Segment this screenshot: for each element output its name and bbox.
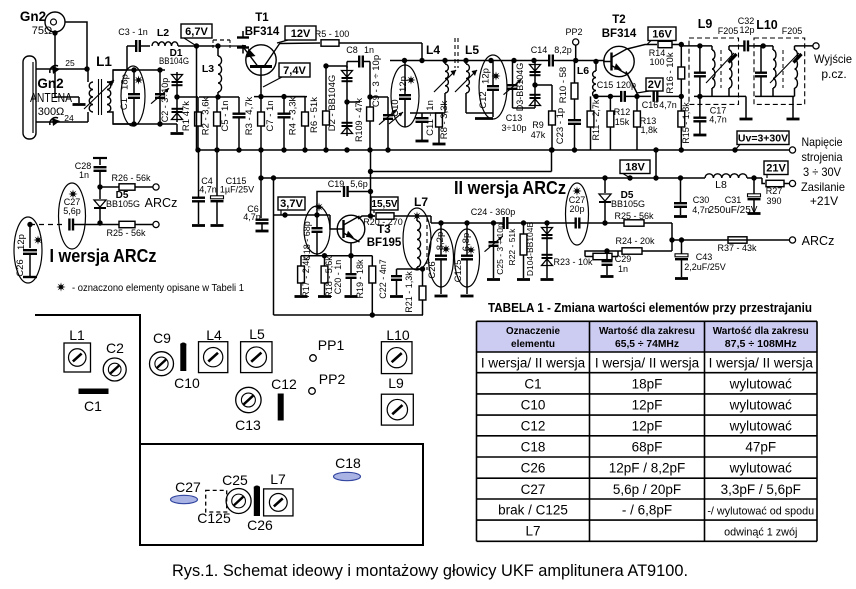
svg-text:18V: 18V bbox=[625, 161, 645, 173]
wire L1 secondary bbox=[107, 70, 127, 82]
svg-text:wylutować: wylutować bbox=[729, 419, 793, 434]
svg-text:C43: C43 bbox=[696, 252, 713, 262]
svg-text:100: 100 bbox=[649, 57, 664, 67]
svg-text:C3 - 1n: C3 - 1n bbox=[118, 27, 148, 37]
wire pin25 to L1 bbox=[36, 68, 88, 70]
wire T3 collector bbox=[358, 216, 375, 219]
inductor L4 winding bbox=[445, 64, 448, 93]
svg-text:C25: C25 bbox=[222, 472, 248, 488]
svg-text:C13: C13 bbox=[506, 113, 523, 123]
callout 12V bbox=[285, 26, 316, 40]
IF can L10 dashed box bbox=[754, 38, 805, 104]
wire T2 emitter bbox=[626, 72, 637, 97]
svg-text:-/ wylutować od spodu: -/ wylutować od spodu bbox=[707, 506, 814, 518]
svg-text:L7: L7 bbox=[414, 195, 428, 209]
svg-text:2V: 2V bbox=[648, 79, 662, 91]
capacitor C10 mount bbox=[180, 344, 186, 372]
callout 7.4V bbox=[279, 63, 310, 77]
svg-text:87,5 ÷ 108MHz: 87,5 ÷ 108MHz bbox=[725, 338, 797, 350]
svg-text:C24 - 360p: C24 - 360p bbox=[471, 207, 516, 217]
svg-text:R5 - 100: R5 - 100 bbox=[315, 29, 350, 39]
svg-text:18pF: 18pF bbox=[632, 376, 663, 391]
svg-text:2,2uF/25V: 2,2uF/25V bbox=[684, 262, 726, 272]
svg-text:C26: C26 bbox=[247, 517, 273, 533]
svg-text:120p: 120p bbox=[616, 80, 636, 90]
node ARCz II line bbox=[97, 220, 102, 225]
svg-text:II wersja ARCz: II wersja ARCz bbox=[454, 178, 566, 198]
svg-text:odwinąć 1 zwój: odwinąć 1 zwój bbox=[724, 527, 797, 539]
trimmer C13 mount bbox=[236, 387, 261, 412]
svg-text:T1: T1 bbox=[255, 12, 269, 24]
svg-text:12p: 12p bbox=[16, 234, 27, 250]
svg-text:R27: R27 bbox=[766, 186, 783, 196]
svg-text:68pF: 68pF bbox=[632, 439, 663, 454]
svg-text:C26: C26 bbox=[521, 461, 546, 476]
capacitor C12 12p (marked) bbox=[479, 55, 507, 119]
svg-text:BF314: BF314 bbox=[602, 28, 637, 40]
callout 15.5V bbox=[371, 197, 398, 210]
svg-text:C27: C27 bbox=[521, 482, 546, 497]
svg-text:wylutować: wylutować bbox=[729, 376, 793, 391]
ARCz output line bbox=[672, 239, 789, 241]
emitter bus T3 bbox=[301, 255, 372, 257]
svg-text:R26 - 56k: R26 - 56k bbox=[111, 173, 151, 183]
callout Uv bbox=[737, 131, 789, 145]
terminal ARCz bbox=[789, 237, 795, 243]
svg-text:wylutować: wylutować bbox=[729, 398, 793, 413]
svg-text:BF195: BF195 bbox=[367, 237, 402, 249]
svg-text:5,6p / 20pF: 5,6p / 20pF bbox=[613, 482, 681, 497]
wire L8 to 21V bbox=[747, 177, 762, 179]
capacitor C1 18p (marked) bbox=[121, 66, 145, 126]
svg-text:C1: C1 bbox=[524, 376, 541, 391]
svg-text:C2: C2 bbox=[106, 340, 124, 356]
svg-text:C15: C15 bbox=[597, 80, 614, 90]
svg-text:I wersja/ II wersja: I wersja/ II wersja bbox=[481, 356, 586, 371]
svg-text:C27: C27 bbox=[175, 479, 201, 495]
svg-text:C18: C18 bbox=[521, 439, 546, 454]
L9 primary winding bbox=[711, 46, 713, 50]
svg-text:brak / C125: brak / C125 bbox=[498, 503, 568, 518]
capacitor C1 mount bbox=[79, 389, 109, 395]
node L3 bottom bbox=[199, 96, 239, 98]
svg-text:R24 - 20k: R24 - 20k bbox=[615, 236, 655, 246]
svg-text:12pF: 12pF bbox=[632, 398, 663, 413]
connector Gn2 ANTENA 300R body bbox=[23, 56, 36, 139]
svg-text:15,5V: 15,5V bbox=[371, 199, 397, 210]
svg-text:BB105G: BB105G bbox=[611, 199, 645, 209]
wire D1 to R1 bbox=[177, 96, 198, 98]
svg-text:C29: C29 bbox=[615, 254, 632, 264]
wire T1 collector bbox=[280, 42, 320, 45]
svg-text:300Ω: 300Ω bbox=[38, 106, 65, 118]
svg-text:L3: L3 bbox=[202, 63, 214, 75]
wire AFC line y171.5 bbox=[370, 150, 372, 216]
svg-text:47k: 47k bbox=[531, 130, 546, 140]
svg-text:elementu: elementu bbox=[511, 338, 555, 350]
svg-text:C12: C12 bbox=[521, 419, 546, 434]
IF can L9 dashed box bbox=[689, 38, 739, 104]
dashed link C26 to C27 bbox=[30, 224, 65, 226]
svg-text:R23 - 10k: R23 - 10k bbox=[553, 257, 593, 267]
svg-text:5,6p: 5,6p bbox=[63, 206, 81, 216]
svg-text:65,5 ÷ 74MHz: 65,5 ÷ 74MHz bbox=[615, 338, 679, 350]
wire Gn2 stem bbox=[54, 32, 56, 45]
emitter bus T2 bbox=[596, 95, 621, 97]
wire L2 to T1 bbox=[178, 45, 214, 47]
svg-text:Wartość dla zakresu: Wartość dla zakresu bbox=[713, 325, 809, 337]
svg-text:12p: 12p bbox=[398, 76, 409, 92]
svg-text:12p: 12p bbox=[481, 68, 492, 84]
mounting area border bbox=[35, 315, 140, 444]
node secondary top bbox=[113, 69, 165, 71]
connector Gn2 75R bbox=[45, 12, 65, 32]
wire to ARCz bbox=[671, 223, 673, 251]
svg-text:C20 - 1n: C20 - 1n bbox=[333, 260, 343, 295]
terminal Wyjscie p.cz. bbox=[813, 43, 819, 49]
svg-text:C13: C13 bbox=[235, 417, 261, 433]
svg-text:R3 - 4,7k: R3 - 4,7k bbox=[244, 96, 255, 135]
svg-text:L9: L9 bbox=[388, 375, 404, 391]
svg-text:R12: R12 bbox=[614, 107, 631, 117]
svg-text:C1: C1 bbox=[119, 98, 130, 110]
svg-text:C1: C1 bbox=[84, 398, 102, 414]
svg-text:L9: L9 bbox=[698, 17, 713, 31]
svg-text:5,6p: 5,6p bbox=[350, 179, 368, 189]
capacitor C27 5.6p (marked) bbox=[59, 183, 86, 249]
svg-text:L10: L10 bbox=[756, 18, 778, 32]
svg-text:16V: 16V bbox=[652, 28, 672, 40]
svg-text:Wartość dla zakresu: Wartość dla zakresu bbox=[599, 325, 695, 337]
svg-text:15k: 15k bbox=[615, 117, 630, 127]
svg-text:L7: L7 bbox=[270, 471, 286, 487]
L10 tuning slug bbox=[770, 53, 799, 83]
svg-text:Gn2: Gn2 bbox=[20, 9, 46, 24]
svg-text:C125: C125 bbox=[453, 260, 464, 283]
shield dashes at T1 base bbox=[214, 45, 246, 47]
capacitor C125 mount bbox=[206, 490, 227, 512]
table grid bbox=[477, 320, 818, 322]
svg-text:C10: C10 bbox=[521, 398, 546, 413]
L10 secondary winding bbox=[794, 46, 796, 50]
svg-text:C16: C16 bbox=[642, 100, 659, 110]
svg-text:L7: L7 bbox=[525, 524, 540, 539]
svg-text:Gn2: Gn2 bbox=[37, 76, 63, 91]
svg-text:R17 - 2,4k: R17 - 2,4k bbox=[301, 256, 311, 298]
wire T1 left diagonal to shield wire bbox=[242, 45, 246, 48]
svg-text:25: 25 bbox=[65, 58, 75, 68]
capacitor C125 6.8p (marked) bbox=[455, 229, 480, 287]
svg-text:Wyjście: Wyjście bbox=[814, 52, 852, 66]
svg-text:L10: L10 bbox=[386, 327, 410, 343]
svg-text:C8: C8 bbox=[346, 45, 358, 55]
svg-text:R37 - 43k: R37 - 43k bbox=[717, 243, 757, 253]
capacitor C10 12p (marked) bbox=[391, 65, 419, 127]
svg-text:6,7V: 6,7V bbox=[185, 26, 208, 38]
supply bus y177 bbox=[261, 177, 705, 179]
svg-text:PP1: PP1 bbox=[318, 337, 345, 353]
svg-text:R16 - 10k: R16 - 10k bbox=[665, 52, 676, 93]
svg-text:I wersja/ II wersja: I wersja/ II wersja bbox=[595, 356, 700, 371]
capacitor C26 8.2p II (marked) bbox=[429, 229, 454, 287]
svg-text:R22 - 51k: R22 - 51k bbox=[507, 228, 517, 266]
svg-text:Rys.1. Schemat ideowy i montaż: Rys.1. Schemat ideowy i montażowy głowic… bbox=[172, 562, 688, 580]
svg-text:I wersja ARCz: I wersja ARCz bbox=[50, 246, 157, 266]
wire bottom rail left bbox=[113, 123, 177, 125]
terminal Zasilanie +21V bbox=[789, 180, 795, 186]
resistor R12 15k bbox=[609, 96, 611, 111]
wire AGC column x196 bbox=[196, 46, 198, 150]
svg-text:F205: F205 bbox=[782, 26, 803, 36]
wire II box bottom bbox=[274, 314, 424, 316]
svg-text:4,7n: 4,7n bbox=[709, 115, 727, 125]
svg-text:PP2: PP2 bbox=[319, 371, 346, 387]
svg-text:4,7n: 4,7n bbox=[659, 100, 677, 110]
svg-text:C2 - 3÷10p: C2 - 3÷10p bbox=[160, 78, 170, 122]
svg-text:18p: 18p bbox=[120, 74, 131, 90]
svg-text:BB104G: BB104G bbox=[159, 56, 189, 66]
svg-text:R9: R9 bbox=[532, 120, 544, 130]
svg-text:+21V: +21V bbox=[810, 194, 838, 208]
svg-text:C7 - 1n: C7 - 1n bbox=[265, 100, 276, 131]
wire T1 base lead down bbox=[260, 75, 262, 96]
svg-text:R2 - 3,6k: R2 - 3,6k bbox=[201, 96, 212, 135]
L10 primary cap bbox=[760, 46, 762, 73]
L9 bottom wire and ground bbox=[694, 95, 746, 97]
svg-text:T2: T2 bbox=[612, 14, 625, 26]
svg-text:4,7n: 4,7n bbox=[199, 185, 217, 195]
svg-text:Zasilanie: Zasilanie bbox=[801, 180, 845, 194]
wire T1 column to C6 bbox=[260, 150, 262, 218]
svg-text:L5: L5 bbox=[465, 43, 479, 57]
svg-text:C12: C12 bbox=[271, 376, 297, 392]
svg-text:C22 - 4n7: C22 - 4n7 bbox=[378, 259, 388, 299]
svg-text:C14: C14 bbox=[531, 45, 548, 55]
wire 75R down to ground branch bbox=[55, 45, 79, 97]
svg-text:C125: C125 bbox=[197, 510, 231, 526]
svg-text:C10: C10 bbox=[174, 375, 200, 391]
svg-text:4,7n: 4,7n bbox=[692, 205, 710, 215]
svg-text:ANTENA: ANTENA bbox=[30, 91, 73, 105]
svg-text:R25 - 56k: R25 - 56k bbox=[106, 228, 146, 238]
svg-text:- oznaczono elementy opisane w: - oznaczono elementy opisane w Tabeli 1 bbox=[72, 282, 244, 294]
svg-text:L2: L2 bbox=[157, 27, 169, 39]
ground under antenna bbox=[78, 97, 80, 103]
svg-text:12pF / 8,2pF: 12pF / 8,2pF bbox=[609, 461, 686, 476]
svg-text:R6 - 51k: R6 - 51k bbox=[309, 97, 320, 133]
svg-text:L4: L4 bbox=[426, 43, 440, 57]
wire T3 base bbox=[274, 214, 331, 216]
svg-text:C9 - 3 ÷ 10p: C9 - 3 ÷ 10p bbox=[371, 55, 382, 107]
capacitor C26 12p (marked) bbox=[14, 217, 42, 283]
trimmer on C10 bbox=[389, 112, 403, 124]
svg-text:BB105G: BB105G bbox=[106, 199, 140, 209]
svg-text:1,8k: 1,8k bbox=[640, 125, 658, 135]
svg-text:L1: L1 bbox=[69, 327, 85, 343]
svg-text:3,7V: 3,7V bbox=[280, 198, 303, 210]
svg-text:1n: 1n bbox=[79, 170, 89, 180]
wire top bus to L4 bbox=[421, 43, 423, 61]
svg-text:12V: 12V bbox=[291, 28, 311, 40]
trimmer C13 3-10p bbox=[512, 61, 514, 86]
svg-text:C12: C12 bbox=[478, 91, 489, 108]
svg-text:C18: C18 bbox=[335, 455, 361, 471]
resistor R13 1.8k bbox=[636, 96, 638, 111]
svg-text:C9: C9 bbox=[153, 330, 171, 346]
svg-text:L6: L6 bbox=[577, 65, 589, 77]
svg-text:C30: C30 bbox=[693, 195, 710, 205]
resistor R11 2.7k bbox=[590, 96, 592, 111]
feedthrough at T1 base bbox=[237, 36, 249, 38]
svg-text:R109 - 47k: R109 - 47k bbox=[354, 97, 364, 142]
L9 tuning slug bbox=[706, 53, 734, 83]
svg-text:R11 - 2,7k: R11 - 2,7k bbox=[591, 99, 601, 140]
svg-text:PP2: PP2 bbox=[565, 27, 582, 37]
svg-text:I wersja/ II wersja: I wersja/ II wersja bbox=[709, 356, 814, 371]
svg-text:8,2p: 8,2p bbox=[554, 45, 572, 55]
capacitor C26 mount bbox=[254, 487, 260, 517]
emitter bus y96.6 bbox=[254, 96, 307, 98]
wire D2 mid tap bbox=[347, 101, 360, 103]
node ARCz I bbox=[97, 184, 102, 189]
svg-text:3÷10p: 3÷10p bbox=[502, 123, 527, 133]
bus y60.5 bbox=[390, 60, 547, 62]
shield dashes L4/L5 bbox=[454, 38, 456, 68]
resistor R18 5.6k bbox=[324, 256, 326, 266]
svg-text:wylutować: wylutować bbox=[729, 461, 793, 476]
svg-text:C26: C26 bbox=[427, 261, 438, 278]
bus C24 y223 bbox=[431, 222, 499, 224]
svg-text:C5 - 1n: C5 - 1n bbox=[220, 100, 231, 131]
L10 core separator bbox=[782, 50, 784, 88]
callout 3.7V bbox=[278, 197, 305, 210]
callout 16V bbox=[648, 27, 676, 41]
svg-text:R10 - 58: R10 - 58 bbox=[558, 67, 569, 103]
callout 21V bbox=[764, 161, 788, 175]
svg-text:L5: L5 bbox=[249, 326, 265, 342]
svg-text:1n: 1n bbox=[364, 45, 374, 55]
svg-text:12pF: 12pF bbox=[632, 419, 663, 434]
resistor R17 2.4k bbox=[300, 256, 302, 266]
L9 secondary winding bbox=[728, 46, 730, 50]
svg-text:C31: C31 bbox=[725, 195, 742, 205]
svg-text:12p: 12p bbox=[739, 25, 754, 35]
svg-text:Napięcie: Napięcie bbox=[802, 135, 843, 149]
svg-text:L8: L8 bbox=[715, 179, 727, 191]
L10 bottom wire and ground bbox=[755, 95, 795, 97]
wire II box left edge bbox=[273, 178, 275, 315]
svg-text:BF314: BF314 bbox=[245, 26, 280, 38]
svg-text:75Ω: 75Ω bbox=[32, 25, 52, 37]
svg-text:1n: 1n bbox=[618, 264, 628, 274]
terminal Napiecie strojenia bbox=[789, 147, 795, 153]
svg-text:390: 390 bbox=[766, 196, 781, 206]
mounting inner box bbox=[140, 444, 423, 545]
svg-text:C23 - 1p: C23 - 1p bbox=[555, 108, 566, 144]
svg-text:R1 47k: R1 47k bbox=[181, 101, 192, 131]
inductor L8 bbox=[705, 174, 747, 178]
wire Gn2 to L1 node bbox=[65, 22, 87, 69]
callout 2V bbox=[646, 78, 663, 91]
svg-text:R15 - 1,8k: R15 - 1,8k bbox=[681, 102, 691, 144]
svg-text:L4: L4 bbox=[206, 327, 222, 343]
svg-text:L1: L1 bbox=[96, 54, 112, 69]
L9 feed wire bbox=[681, 45, 712, 47]
svg-text:ARCz: ARCz bbox=[145, 196, 178, 210]
svg-text:R8 - 3,3k: R8 - 3,3k bbox=[439, 100, 450, 139]
wire x656 to 18V rail bbox=[655, 150, 657, 178]
bus Uv y150 bbox=[197, 149, 790, 151]
svg-text:strojenia: strojenia bbox=[802, 150, 843, 164]
svg-text:1µF/25V: 1µF/25V bbox=[220, 185, 254, 195]
svg-text:F205: F205 bbox=[718, 26, 739, 36]
capacitor C27 20p II (marked) bbox=[566, 183, 589, 245]
wire pin24 to L1 bbox=[36, 121, 88, 123]
table header fill bbox=[477, 321, 818, 352]
svg-text:TABELA 1 - Zmiana wartości ele: TABELA 1 - Zmiana wartości elementów prz… bbox=[488, 301, 812, 315]
legend star note bbox=[56, 282, 65, 291]
svg-text:7,4V: 7,4V bbox=[283, 65, 306, 77]
L10 primary winding bbox=[772, 46, 774, 50]
L9 core separator bbox=[720, 50, 722, 88]
svg-text:Oznaczenie: Oznaczenie bbox=[506, 325, 560, 337]
svg-text:D3-BB104G: D3-BB104G bbox=[515, 63, 525, 112]
svg-text:Uv=3+30V: Uv=3+30V bbox=[738, 132, 788, 144]
svg-text:R19 - 18k: R19 - 18k bbox=[355, 259, 365, 299]
callout 18V bbox=[620, 160, 650, 174]
svg-text:p.cz.: p.cz. bbox=[821, 67, 846, 81]
wire T2 collector bbox=[627, 45, 657, 50]
svg-text:R21 - 1,3k: R21 - 1,3k bbox=[404, 271, 414, 313]
svg-text:D104-BB104B: D104-BB104B bbox=[525, 222, 535, 277]
svg-text:- / 6,8pF: - / 6,8pF bbox=[622, 503, 672, 518]
svg-text:3 ÷ 30V: 3 ÷ 30V bbox=[803, 165, 841, 179]
output wire bbox=[795, 45, 814, 47]
trimmer C2 3-10p bbox=[159, 70, 161, 94]
svg-text:ARCz: ARCz bbox=[802, 234, 835, 248]
svg-text:C26: C26 bbox=[15, 259, 26, 276]
capacitor C18 68p (marked) bbox=[304, 206, 330, 254]
svg-text:20p: 20p bbox=[569, 204, 584, 214]
L10 feed bbox=[761, 43, 766, 48]
svg-text:D2 - BB104G: D2 - BB104G bbox=[327, 75, 338, 132]
callout 6.7V bbox=[181, 24, 212, 38]
svg-text:C19: C19 bbox=[328, 179, 345, 189]
svg-text:C25 - 3 ÷ 10p: C25 - 3 ÷ 10p bbox=[495, 223, 505, 275]
svg-text:47pF: 47pF bbox=[745, 439, 776, 454]
svg-text:R4 - 3,3k: R4 - 3,3k bbox=[288, 96, 299, 135]
svg-text:21V: 21V bbox=[766, 162, 786, 174]
svg-text:3,3pF / 5,6pF: 3,3pF / 5,6pF bbox=[721, 482, 801, 497]
svg-text:C18 - 68p: C18 - 68p bbox=[302, 221, 312, 261]
L9 primary cap bbox=[699, 46, 701, 73]
